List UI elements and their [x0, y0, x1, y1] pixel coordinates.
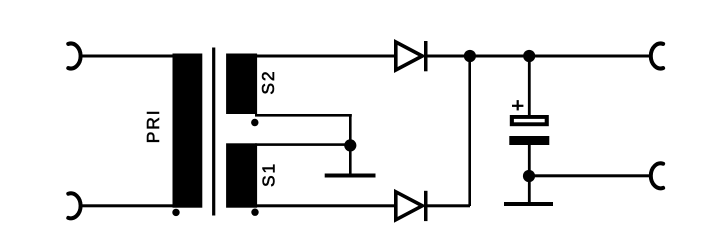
- ground center tap: [325, 174, 376, 178]
- transformer secondary winding S1 bar: [226, 143, 257, 207]
- ground output: [504, 202, 553, 206]
- wire D2 cathode to vertical link: [427, 204, 470, 207]
- junction dot node A: [464, 50, 476, 62]
- wire capacitor top lead: [528, 56, 531, 115]
- capacitor C1 bottom plate: [509, 136, 549, 145]
- capacitor C1 top plate: [510, 115, 549, 126]
- junction dot capacitor top node: [523, 50, 535, 62]
- svg-text:PRI: PRI: [143, 109, 163, 144]
- terminal J4 (output bottom): [651, 163, 663, 188]
- wire S1 top to center tap: [255, 143, 352, 146]
- transformer secondary winding S2 bar: [226, 54, 257, 115]
- wire node A to output top: [470, 55, 652, 58]
- terminal J3 (output top): [651, 44, 663, 69]
- diode D2: [396, 191, 428, 221]
- label + (capacitor polarity): [512, 100, 523, 110]
- terminal J1 (primary input top): [68, 44, 80, 69]
- wire D1 cathode to node A: [427, 55, 470, 58]
- wire J1 to primary top: [81, 55, 174, 58]
- junction dot center tap: [344, 139, 356, 151]
- wire capacitor node to output bottom: [529, 174, 652, 177]
- primary phase dot: [172, 209, 179, 216]
- S2 phase dot: [251, 119, 258, 126]
- wire center tap vertical: [349, 114, 352, 174]
- wire capacitor node to ground: [528, 176, 531, 202]
- S1 phase dot: [251, 209, 258, 216]
- wire J2 to primary bottom: [81, 204, 174, 207]
- wire S2 bottom (center tap horizontal): [255, 114, 352, 117]
- junction dot capacitor bottom node: [523, 170, 535, 182]
- wire S2 top to diode D1: [255, 55, 396, 58]
- diode D1: [396, 41, 428, 71]
- terminal J2 (primary input bottom): [68, 193, 80, 218]
- wire S1 bottom to diode D2: [255, 204, 396, 207]
- svg-text:S2: S2: [258, 70, 278, 95]
- transformer core: [212, 48, 215, 216]
- wire vertical link D2 to node A: [468, 56, 471, 206]
- transformer T1 primary winding bar: [173, 54, 203, 208]
- wire capacitor bottom lead: [528, 145, 531, 176]
- svg-text:S1: S1: [259, 162, 279, 187]
